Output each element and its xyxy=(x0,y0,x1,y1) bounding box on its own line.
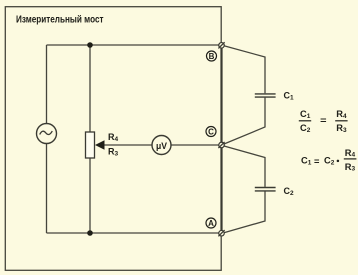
svg-text:=: = xyxy=(320,116,327,126)
svg-text:B: B xyxy=(209,52,215,61)
svg-text:A: A xyxy=(208,219,214,228)
svg-text:C: C xyxy=(208,128,214,137)
svg-text:=: = xyxy=(314,156,320,166)
svg-text:Измерительный мост: Измерительный мост xyxy=(16,14,104,25)
svg-text:μV: μV xyxy=(156,141,168,152)
